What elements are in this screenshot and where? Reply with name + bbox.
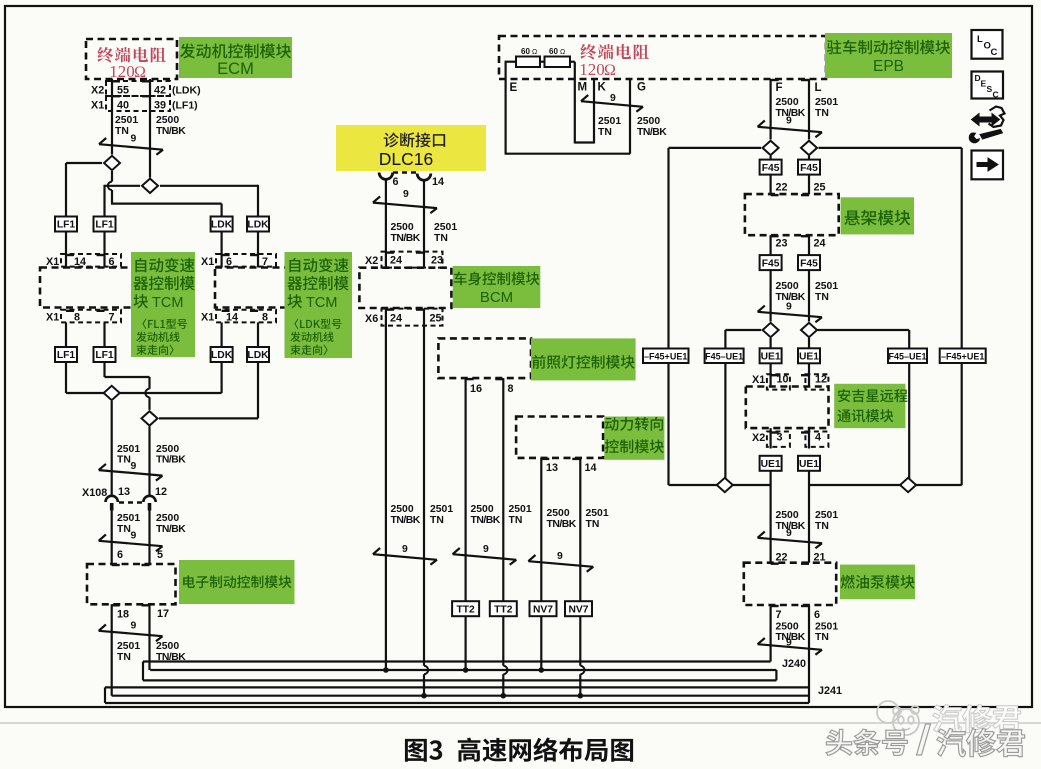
wires TCM bottom to LF1/LDK boxes (65, 322, 67, 347)
splice code F45 boxes bottom (760, 255, 782, 270)
wire headlight 2501 down (hop) (502, 378, 504, 666)
svg-text:120: 120 (109, 62, 135, 81)
svg-text:9: 9 (131, 461, 137, 472)
svg-text:C: C (991, 47, 998, 58)
splice diamond F (669, 147, 762, 149)
svg-text:(LDK): (LDK) (172, 85, 201, 97)
svg-text:TT2: TT2 (494, 604, 513, 615)
svg-text:2500: 2500 (156, 444, 179, 455)
svg-text:TN: TN (509, 515, 523, 526)
svg-text:25: 25 (814, 182, 826, 194)
svg-text:TN: TN (815, 108, 829, 119)
svg-text:X2: X2 (91, 85, 104, 97)
svg-text:TN: TN (115, 126, 129, 137)
BCM connector X2 row (24,23) (382, 252, 443, 268)
svg-text:TN: TN (815, 632, 829, 643)
EPB module big dashed box with terminal resistor (499, 36, 826, 79)
splice node 2500 (diamond) (105, 185, 141, 187)
svg-text:J241: J241 (818, 685, 842, 697)
svg-text:L: L (977, 34, 983, 45)
svg-text:LF1: LF1 (95, 350, 114, 361)
wire to LF1#2 (103, 185, 105, 217)
splice code TT2 boxes (452, 601, 479, 616)
wire hops over J240 (424, 666, 428, 674)
power steering green label (604, 417, 664, 460)
wire DLC16 pin14 2501 (423, 179, 425, 268)
OnStar green label (834, 384, 905, 428)
pin bracket feet (112, 80, 120, 82)
svg-text:F45: F45 (800, 258, 818, 269)
svg-text:TN/BK: TN/BK (391, 515, 421, 526)
svg-text:TN: TN (434, 233, 448, 244)
bottom splice 2501 (diamond) with bus line (66, 392, 222, 394)
svg-text:9: 9 (131, 531, 137, 542)
svg-text:2500: 2500 (776, 281, 799, 292)
wire 2501 to LDK with hop (111, 171, 113, 182)
svg-text:4: 4 (815, 432, 821, 444)
svg-text:TN: TN (117, 455, 131, 466)
splice node 2501 (diamond) (66, 162, 102, 164)
wires into TCM top rows (65, 231, 67, 267)
svg-text:X1: X1 (201, 256, 214, 268)
splice code LF1 box 2 (94, 217, 116, 232)
svg-text:24: 24 (390, 255, 402, 267)
svg-text:NV7: NV7 (533, 604, 553, 615)
svg-text:6: 6 (117, 549, 123, 561)
svg-text:2500: 2500 (156, 641, 179, 652)
icon LOC box (972, 30, 1003, 59)
wire headlight 2500 down (465, 378, 467, 670)
splice diamond L (819, 147, 962, 149)
svg-text:F45: F45 (762, 258, 780, 269)
svg-text:17: 17 (157, 608, 169, 620)
splice code -F45+UE1 right (940, 349, 986, 364)
svg-text:2500: 2500 (776, 510, 799, 521)
svg-text:TCM: TCM (152, 295, 183, 311)
svg-text:8: 8 (508, 383, 514, 395)
svg-text:2501: 2501 (815, 281, 838, 292)
svg-text:TN: TN (117, 524, 131, 535)
splice code UE1 bottom right (798, 456, 820, 471)
TCM LDK connector X1 top row (6,7) (216, 254, 276, 267)
svg-text:2501: 2501 (815, 622, 838, 633)
M-K loop below (574, 79, 576, 144)
svg-text:12: 12 (815, 374, 827, 386)
splice code LDK box 1 (211, 217, 233, 232)
TCM LDK connector X1 bottom row (14,8) (216, 310, 276, 323)
svg-text:14: 14 (432, 176, 444, 188)
svg-text:EPB: EPB (873, 58, 904, 75)
svg-text:2501: 2501 (815, 97, 838, 108)
EBCM green label (179, 560, 295, 604)
svg-text:2501: 2501 (434, 222, 457, 233)
right trunk wire 2501 down right side (961, 148, 963, 485)
icon forward arrow box (972, 151, 1004, 180)
title (405, 737, 633, 761)
splice code LF1 box 4 (94, 347, 116, 362)
svg-text:F45: F45 (800, 163, 818, 174)
svg-text:Ω: Ω (560, 49, 565, 56)
svg-text:9: 9 (131, 134, 137, 145)
svg-text:TN: TN (586, 519, 600, 530)
splice code LF1 box 1 (55, 217, 77, 232)
svg-text:8: 8 (74, 312, 80, 324)
svg-text:12: 12 (155, 486, 167, 498)
watermark panda logo (877, 701, 919, 735)
BCM module box (359, 268, 451, 308)
watermark light (933, 704, 1021, 732)
svg-text:X2: X2 (365, 255, 378, 267)
splice code F45-UE1 left (705, 349, 744, 364)
wire BCM 2501 down to J241 (hop at J240) (423, 309, 425, 666)
wires X108 to EBCM (111, 510, 113, 564)
TCM LDK green label (285, 252, 353, 358)
svg-text:LDK: LDK (247, 220, 269, 231)
connector X2 row (pins 55,42) (106, 81, 170, 96)
OnStar module box (746, 387, 829, 429)
svg-text:6: 6 (393, 176, 399, 188)
svg-text:TN/BK: TN/BK (156, 126, 186, 137)
splice code LF1 box 3 (55, 347, 77, 362)
svg-text:X1: X1 (91, 100, 104, 112)
wire BCM 2500 down to J240 (385, 309, 387, 670)
splice code NV7 boxes (530, 601, 557, 616)
wire to LDK#2 (257, 185, 259, 217)
separator line (0, 722, 1041, 724)
left trunk wire 2500 down right side (667, 148, 669, 485)
svg-text:–F45+UE1: –F45+UE1 (941, 351, 984, 361)
wire LF1#4 jog to 2500 splice, hop (103, 362, 105, 377)
bus J241 loop (105, 686, 809, 688)
svg-text:LDK: LDK (211, 220, 233, 231)
DLC16 yellow label (336, 125, 486, 171)
svg-text:X2: X2 (752, 432, 765, 444)
svg-text:120: 120 (579, 60, 605, 79)
suspension green label (841, 197, 914, 234)
connector X1 row (pins 40,39) (106, 96, 170, 111)
fuel pump module box (744, 563, 836, 605)
wires from OnStar to UE1 (769, 428, 771, 448)
svg-text:9: 9 (403, 189, 409, 200)
suspension module box (745, 194, 839, 235)
svg-text:F45: F45 (762, 163, 780, 174)
svg-text:14: 14 (585, 462, 597, 474)
svg-text:40: 40 (117, 100, 129, 112)
red label terminal resistor 120ohm (580, 44, 648, 60)
wire DLC16 pin6 2500 (385, 178, 387, 268)
svg-text:LDK: LDK (211, 350, 233, 361)
inline connector X108 (13,12) (106, 496, 118, 502)
svg-text:TN: TN (117, 652, 131, 663)
svg-text:16: 16 (470, 383, 482, 395)
svg-text:2501: 2501 (115, 115, 138, 126)
bus junction dots on J241 (421, 693, 427, 699)
svg-text:9: 9 (131, 621, 137, 632)
svg-text:X1: X1 (752, 374, 765, 386)
splice diamond 2501 (OnStar) (818, 329, 910, 331)
svg-text:ECM: ECM (217, 60, 254, 78)
svg-text:M: M (578, 82, 588, 94)
svg-text:2501: 2501 (509, 504, 532, 515)
splice code LDK box 3 (211, 347, 233, 362)
svg-text:23: 23 (431, 255, 443, 267)
splice code LDK box 2 (247, 217, 269, 232)
svg-text:G: G (637, 82, 646, 94)
svg-text:14: 14 (226, 312, 238, 324)
svg-text:TN/BK: TN/BK (156, 524, 186, 535)
svg-text:TN/BK: TN/BK (156, 455, 186, 466)
svg-text:–F45+UE1: –F45+UE1 (644, 351, 687, 361)
splice diamond 2500 (OnStar) (725, 329, 761, 331)
wires into OnStar X1 row (769, 363, 771, 387)
EBCM module box (87, 564, 176, 604)
wire EBCM 2500 down to J240 (148, 604, 150, 670)
icon DESC box (972, 72, 1004, 99)
svg-text:DLC16: DLC16 (379, 149, 433, 169)
svg-text:LF1: LF1 (95, 220, 114, 231)
svg-text:2501: 2501 (815, 510, 838, 521)
svg-text:X1: X1 (201, 312, 214, 324)
svg-text:2501: 2501 (117, 444, 140, 455)
OnStar connector X2 row (3,4) (767, 432, 790, 447)
svg-text:K: K (598, 82, 607, 94)
wire LDK#4 down to 2500 splice (257, 362, 259, 419)
svg-text:TN/BK: TN/BK (547, 519, 577, 530)
fuel pump green label (840, 565, 915, 600)
svg-text:LDK: LDK (247, 350, 269, 361)
svg-text:UE1: UE1 (799, 459, 819, 470)
svg-text:TN: TN (815, 521, 829, 532)
svg-text:J240: J240 (782, 658, 806, 670)
svg-text:8: 8 (262, 312, 268, 324)
svg-text:7: 7 (776, 609, 782, 621)
splice code UE1 bottom left (760, 456, 782, 471)
wires fuel pump to buses (769, 605, 771, 662)
svg-text:55: 55 (117, 85, 129, 97)
BCM connector X5 row (24,25) (382, 309, 443, 326)
svg-text:(LF1): (LF1) (172, 100, 198, 112)
svg-text:2501: 2501 (586, 508, 609, 519)
wires to suspension, pins 22,25 (769, 174, 771, 194)
DLC16 connector cups pins 6,14 (379, 173, 393, 180)
svg-text:TN: TN (430, 515, 444, 526)
splice code LDK box 4 (247, 347, 269, 362)
svg-text:X1: X1 (46, 312, 59, 324)
svg-text:9: 9 (786, 302, 792, 313)
bus junction dots on J240 (383, 667, 389, 673)
svg-text:2501: 2501 (598, 116, 621, 127)
svg-text:UE1: UE1 (799, 352, 819, 363)
svg-text:9: 9 (483, 544, 489, 555)
splice code UE1 top right (798, 348, 820, 363)
wire ECM pin55 2501 TN (111, 79, 113, 155)
bottom splice 2500 (diamond) (142, 411, 158, 425)
svg-text:25: 25 (430, 313, 442, 325)
svg-text:13: 13 (546, 462, 558, 474)
svg-text:BCM: BCM (480, 289, 513, 306)
wire 2500 down to X108 (148, 426, 150, 496)
wire EBCM 2501 down to J241 (111, 604, 113, 695)
svg-text:9: 9 (786, 116, 792, 127)
headlight green label (531, 338, 636, 380)
svg-text:F45–UE1: F45–UE1 (705, 351, 743, 361)
TCM FL1 green label (131, 252, 195, 357)
svg-text:Ω: Ω (532, 49, 537, 56)
svg-text:60: 60 (521, 47, 530, 56)
svg-text:NV7: NV7 (568, 604, 588, 615)
svg-text:F: F (776, 82, 783, 94)
TCM FL1 connector X1 top row (14,6) (61, 254, 121, 267)
svg-text:24: 24 (814, 238, 826, 250)
EPB green label (825, 33, 952, 78)
TCM LDK module box (215, 268, 300, 308)
ECM module label (179, 37, 292, 78)
svg-text:UE1: UE1 (761, 459, 781, 470)
svg-text:2501: 2501 (117, 641, 140, 652)
svg-text:24: 24 (390, 313, 402, 325)
svg-text:6: 6 (814, 609, 820, 621)
svg-text:18: 18 (117, 609, 129, 621)
svg-text:F45–UE1: F45–UE1 (888, 351, 926, 361)
svg-text:Ω: Ω (604, 62, 616, 79)
svg-text:13: 13 (118, 486, 130, 498)
svg-text:2500: 2500 (156, 513, 179, 524)
svg-text:2500: 2500 (547, 508, 570, 519)
svg-text:9: 9 (610, 93, 616, 104)
svg-text:2500: 2500 (637, 116, 660, 127)
svg-text:2501: 2501 (430, 504, 453, 515)
svg-text:5: 5 (157, 549, 163, 561)
watermark main (826, 729, 907, 755)
splice code UE1 top left (760, 348, 782, 363)
wire LDK#3 down to splice (221, 362, 223, 393)
svg-text:TN/BK: TN/BK (391, 233, 421, 244)
E-G loop below (505, 79, 507, 154)
svg-text:2500: 2500 (471, 504, 494, 515)
svg-text:TN: TN (598, 127, 612, 138)
bus J240 loop (143, 660, 771, 662)
svg-text:Ω: Ω (134, 64, 146, 81)
svg-text:X108: X108 (82, 487, 107, 499)
wire EPB F 2500 (769, 79, 771, 139)
bottom junction horizontals + diamonds (769, 471, 771, 563)
headlight control module box (438, 338, 531, 378)
resistor wiring E to M (505, 62, 507, 79)
splice code F45 boxes top (769, 156, 771, 161)
svg-text:TN/BK: TN/BK (637, 127, 667, 138)
svg-text:TN/BK: TN/BK (471, 515, 501, 526)
branch wires down (724, 330, 726, 485)
svg-text:2501: 2501 (117, 513, 140, 524)
wire LF1#3 down to splice (65, 362, 67, 393)
wires down with labels (769, 269, 771, 321)
svg-text:42: 42 (154, 85, 166, 97)
wire 2501 down to X108 (111, 401, 113, 497)
svg-text:9: 9 (402, 544, 408, 555)
svg-text:2500: 2500 (776, 97, 799, 108)
splice code F45-UE1 right (888, 349, 927, 364)
terminal resistor (ECM) box label 120ohm (86, 39, 177, 79)
TCM FL1 connector X1 bottom row (8,7) (61, 310, 121, 323)
svg-text:60: 60 (549, 47, 558, 56)
icon wiring arrows + wrench (989, 107, 1005, 128)
svg-text:TCM: TCM (306, 295, 337, 311)
OnStar connector X1 row (10,12) (767, 374, 790, 389)
svg-text:22: 22 (776, 182, 788, 194)
svg-text:TN: TN (815, 292, 829, 303)
svg-text:E: E (510, 82, 518, 94)
wire EPB L 2501 (808, 79, 810, 139)
svg-text:9: 9 (786, 528, 792, 539)
svg-text:L: L (815, 82, 822, 94)
svg-text:LF1: LF1 (57, 350, 76, 361)
wire steering 2500 down (540, 458, 542, 670)
power steering module box (516, 417, 603, 458)
svg-text:UE1: UE1 (761, 352, 781, 363)
svg-text:TT2: TT2 (456, 604, 475, 615)
svg-text:2500: 2500 (391, 504, 414, 515)
svg-text:39: 39 (154, 100, 166, 112)
wire ECM pin42 2500 TN/BK (149, 79, 151, 178)
svg-text:2500: 2500 (391, 222, 414, 233)
wires to F45 boxes bottom (769, 235, 771, 256)
svg-text:LF1: LF1 (57, 220, 76, 231)
svg-text:X6: X6 (365, 313, 378, 325)
wire to LF1#1 (65, 163, 67, 217)
svg-text:7: 7 (109, 312, 115, 324)
wire steering 2501 down (hop) (579, 458, 581, 666)
splice code -F45+UE1 left (643, 349, 689, 364)
svg-text:2500: 2500 (156, 115, 179, 126)
BCM green label (453, 266, 541, 308)
svg-text:9: 9 (557, 551, 563, 562)
svg-text:2500: 2500 (776, 622, 799, 633)
TCM FL1 module box (40, 268, 140, 308)
svg-text:23: 23 (776, 238, 788, 250)
svg-text:C: C (993, 90, 999, 100)
